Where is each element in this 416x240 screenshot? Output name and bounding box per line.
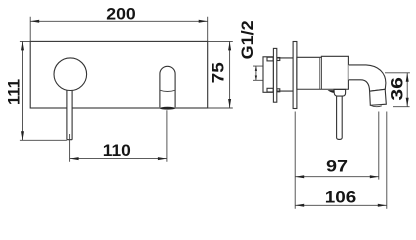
side view tube through wall xyxy=(277,58,293,91)
side view G1/2 inlet stub lines xyxy=(253,66,264,80)
dimension 110 line xyxy=(70,158,167,160)
svg-text:110: 110 xyxy=(103,141,131,160)
front view spout body xyxy=(160,66,175,107)
dimension 97 extension lines xyxy=(295,112,379,209)
dimension 106 line xyxy=(295,204,387,206)
front view handle lever stem xyxy=(67,90,72,140)
svg-text:200: 200 xyxy=(106,4,136,23)
svg-text:G1/2: G1/2 xyxy=(238,20,257,59)
dimension 36 arrows xyxy=(406,73,409,82)
front view spout dark outlet tip xyxy=(160,107,175,110)
svg-text:106: 106 xyxy=(325,188,357,207)
dimension 200 extension lines xyxy=(30,17,208,42)
front view spout joint line xyxy=(160,90,175,91)
dimension 111 line xyxy=(22,41,24,140)
dimension 36 extension lines xyxy=(385,73,410,107)
svg-text:97: 97 xyxy=(326,157,348,176)
svg-text:111: 111 xyxy=(5,79,24,105)
dimension 106 arrows xyxy=(295,204,304,207)
side view outlet rim line xyxy=(371,106,382,107)
side view wall plate edge xyxy=(293,42,297,109)
dimension 97 line xyxy=(295,176,379,178)
dimension 75 extension lines xyxy=(208,41,233,108)
side view G1/2 dimension line xyxy=(255,66,257,80)
side view spout aerator joint line xyxy=(370,89,386,91)
dimension 36 line xyxy=(406,73,408,107)
dimension 97 arrows xyxy=(295,175,304,178)
side view handle dark wedge xyxy=(328,90,335,93)
dimension 75 line xyxy=(229,41,231,108)
dimension 111 extension lines xyxy=(20,41,67,140)
side view handle lever xyxy=(337,96,343,139)
dimension 200 line xyxy=(30,20,208,22)
dimension 111 arrows xyxy=(21,41,24,50)
side view bottom screw xyxy=(267,88,273,92)
side view spout tube bend xyxy=(348,65,386,91)
side view top screw xyxy=(267,57,273,61)
svg-text:36: 36 xyxy=(387,77,406,101)
svg-text:75: 75 xyxy=(208,62,227,83)
front view wall plate xyxy=(30,41,208,108)
side view inlet fitting body xyxy=(263,57,273,93)
front view mixer knob circle xyxy=(54,58,87,91)
side view mixer body cylinder xyxy=(297,56,349,89)
dimension 110 arrows xyxy=(70,157,79,160)
side view spout outlet tip xyxy=(370,89,387,105)
side view mounting bracket bar xyxy=(273,48,276,102)
dimension 106 extension line right xyxy=(386,112,388,209)
dimension 200 arrows xyxy=(30,20,39,23)
side view G1/2 dimension arrows xyxy=(255,66,257,71)
dimension 75 arrows xyxy=(228,41,231,50)
dimension 110 extension lines xyxy=(70,110,167,162)
side view body joint ring lines xyxy=(320,56,322,89)
side view handle collar xyxy=(334,89,346,96)
